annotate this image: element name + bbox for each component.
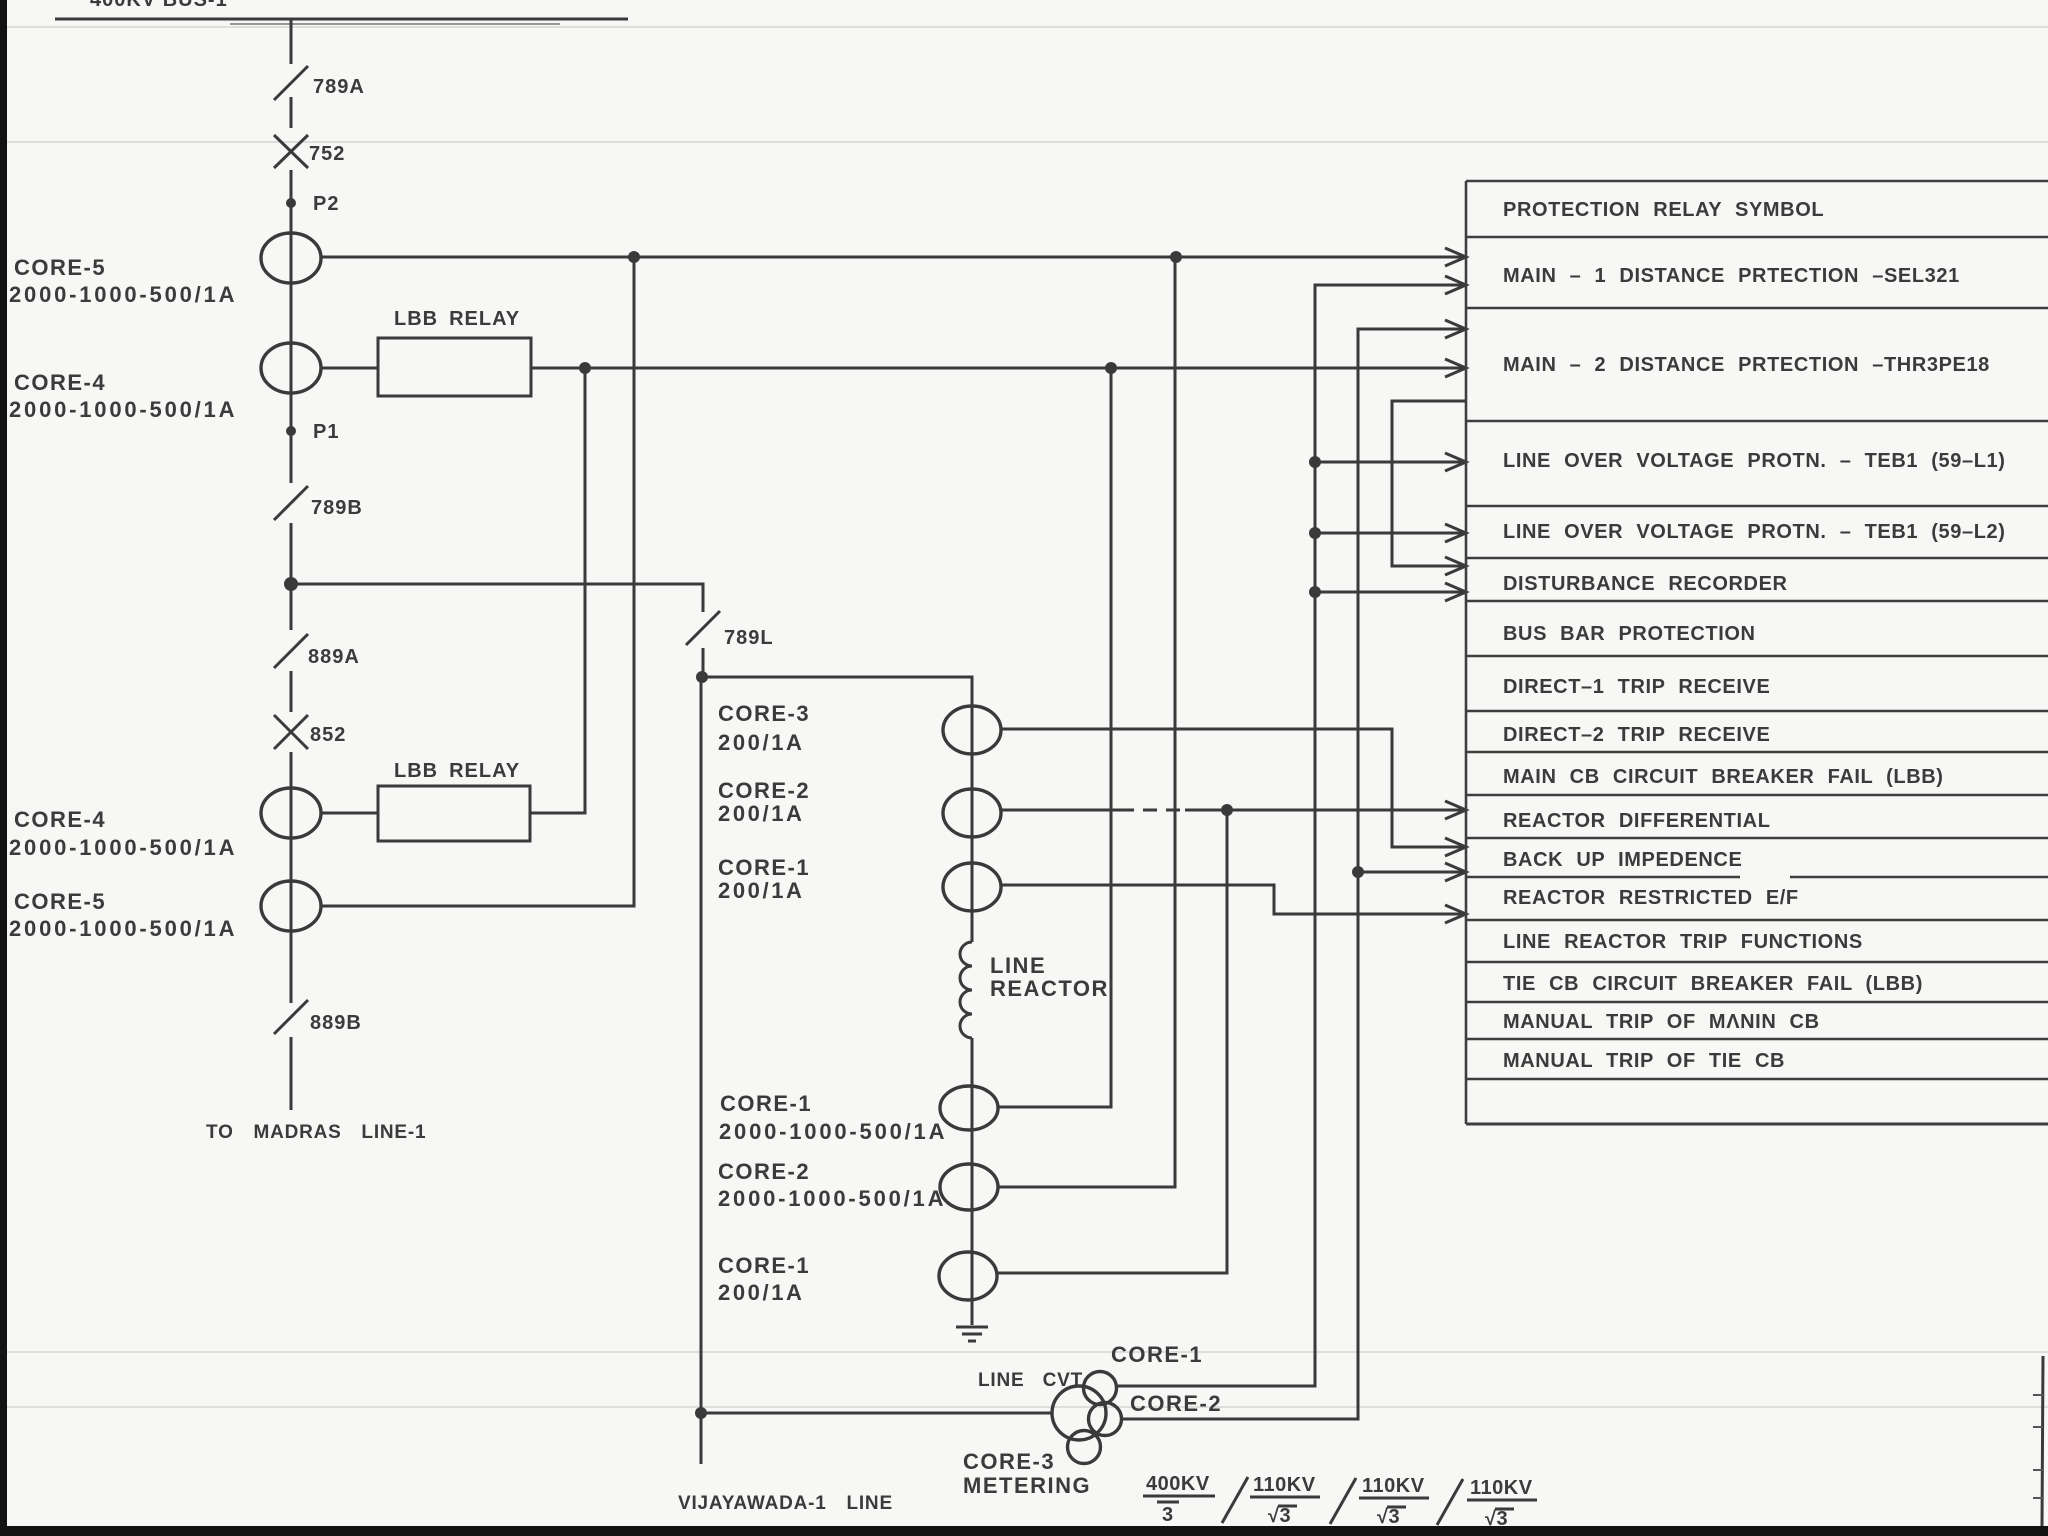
wire: 789A to breaker 752 — [290, 97, 293, 128]
ratio slash 1 — [1222, 1477, 1248, 1523]
svg-text:CORE-3: CORE-3 — [963, 1449, 1055, 1474]
value label 400KV/3 ratio — [1143, 1473, 1215, 1526]
wire: CORE-4 CT to LBB relay 1 — [321, 367, 378, 370]
isolator 889B — [274, 1000, 362, 1034]
label CVT CORE-1 — [1111, 1342, 1203, 1367]
wire: node to line reactor branch — [702, 677, 972, 942]
table row BACK UP IMPEDENCE — [1503, 849, 1742, 871]
svg-text:REACTOR: REACTOR — [990, 976, 1109, 1001]
svg-text:REACTOR DIFFERENTIAL: REACTOR DIFFERENTIAL — [1503, 810, 1771, 832]
value label CORE-5 2000-1000-500/1A — [9, 255, 237, 307]
svg-text:752: 752 — [309, 143, 345, 165]
wire: CORE-5 upper CT to MAIN-1 row — [321, 256, 1466, 259]
svg-text:LINE CVT: LINE CVT — [978, 1370, 1083, 1391]
svg-text:CORE-3: CORE-3 — [718, 701, 810, 726]
wire: CVT CORE-2 output to relay chain B — [1122, 329, 1466, 1419]
table row MAIN-2 DISTANCE PRTECTION — [1503, 354, 1990, 376]
table row MAIN-1 DISTANCE PRTECTION — [1503, 265, 1960, 287]
wire: CORE-1 CT to REACTOR RESTRICTED E/F row — [1001, 885, 1466, 914]
junction on CORE-5 wire at x1176 — [1170, 251, 1182, 263]
node P1 — [286, 421, 339, 443]
svg-text:VIJAYAWADA-1 LINE: VIJAYAWADA-1 LINE — [678, 1493, 893, 1514]
svg-text:2000-1000-500/1A: 2000-1000-500/1A — [9, 916, 237, 941]
svg-text:REACTOR RESTRICTED E/F: REACTOR RESTRICTED E/F — [1503, 887, 1799, 909]
arrow into MAIN-1 (from CVT core-1) — [1445, 276, 1466, 294]
svg-text:789L: 789L — [724, 627, 774, 649]
svg-text:LBB RELAY: LBB RELAY — [394, 308, 520, 330]
svg-text:TO MADRAS LINE-1: TO MADRAS LINE-1 — [206, 1122, 426, 1143]
sheet border left black bar — [0, 0, 7, 1536]
LINE CVT core-2 winding circle — [1089, 1403, 1122, 1436]
junction chain A at disturbance recorder — [1309, 586, 1321, 598]
svg-text:3: 3 — [1162, 1504, 1174, 1526]
CT CORE-5 upper — [261, 233, 321, 283]
net label VIJAYAWADA-1 LINE — [678, 1493, 893, 1514]
value label CORE-4 2000-1000-500/1A — [9, 370, 237, 422]
protection relay table frame — [1466, 181, 2048, 1124]
table row MAIN CB CIRCUIT BREAKER FAIL — [1503, 766, 1944, 788]
svg-text:2000-1000-500/1A: 2000-1000-500/1A — [9, 835, 237, 860]
wire: chain A to LINE OVER VOLTAGE L1 — [1315, 461, 1466, 464]
isolator 789A — [274, 66, 365, 100]
CT CORE-2 reactor branch — [943, 789, 1001, 837]
svg-text:CORE-4: CORE-4 — [14, 807, 106, 832]
svg-text:CORE-1: CORE-1 — [718, 855, 810, 880]
label LINE CVT — [978, 1370, 1083, 1391]
svg-text:200/1A: 200/1A — [718, 801, 805, 826]
svg-text:LINE REACTOR TRIP FUNCTIONS: LINE REACTOR TRIP FUNCTIONS — [1503, 931, 1863, 953]
ratio slash 2 — [1330, 1478, 1356, 1524]
arrow into BACK UP IMPEDENCE (lower) — [1445, 863, 1466, 881]
wire: CORE-5 lower CT up to MAIN-1 wire — [321, 257, 634, 906]
svg-text:DIRECT–1 TRIP RECEIVE: DIRECT–1 TRIP RECEIVE — [1503, 676, 1770, 698]
bus 400KV BUS-1 label (clipped at top) — [90, 0, 228, 11]
wire: CVT CORE-1 output to relay chain A — [1116, 285, 1466, 1386]
CT CORE-5 lower — [261, 881, 321, 931]
table row REACTOR DIFFERENTIAL — [1503, 810, 1771, 832]
svg-text:√3: √3 — [1485, 1508, 1508, 1530]
node P2 — [286, 193, 339, 215]
CT CORE-1 200/1A bottom reactor branch — [939, 1252, 997, 1300]
arrow into LINE OVER VOLTAGE PROTN (59-L2) — [1445, 524, 1466, 542]
svg-text:√3: √3 — [1377, 1506, 1400, 1528]
value label CORE-5 2000-1000-500/1A lower — [9, 889, 237, 941]
table row MANUAL TRIP OF MANIN CB — [1503, 1011, 1820, 1033]
svg-text:TIE CB CIRCUIT BREAKER FAIL (L: TIE CB CIRCUIT BREAKER FAIL (LBB) — [1503, 973, 1923, 995]
svg-text:CORE-5: CORE-5 — [14, 255, 106, 280]
arrow into MAIN-1 distance protection — [1445, 248, 1466, 266]
wire: reactor to ground — [971, 1038, 974, 1325]
svg-text:CORE-2: CORE-2 — [718, 778, 810, 803]
junction node below 789L — [696, 671, 708, 683]
svg-text:MANUAL TRIP OF MΛNIN CB: MANUAL TRIP OF MΛNIN CB — [1503, 1011, 1820, 1033]
svg-text:789A: 789A — [313, 76, 365, 98]
bus bar 400KV — [55, 18, 628, 21]
junction chain B at back up impedence — [1352, 866, 1364, 878]
table row DIRECT-1 TRIP RECEIVE — [1503, 676, 1770, 698]
svg-text:2000-1000-500/1A: 2000-1000-500/1A — [9, 397, 237, 422]
wire: 752 through CTs to isolator 789B — [290, 170, 293, 483]
wire: 852 through lower CTs to isolator 889B — [290, 752, 293, 1003]
svg-text:MAIN – 1 DISTANCE PRTECTION –S: MAIN – 1 DISTANCE PRTECTION –SEL321 — [1503, 265, 1960, 287]
value label CORE-1 200/1A — [718, 855, 810, 903]
svg-text:P2: P2 — [313, 193, 339, 215]
LBB relay 2 — [378, 760, 530, 841]
wire: CORE-3 CT to BACK UP IMPEDENCE row — [1001, 729, 1466, 847]
arrow into DISTURBANCE RECORDER (lower) — [1445, 583, 1466, 601]
LBB relay 1 — [378, 308, 531, 396]
value label CORE-1 2000-1000-500/1A — [719, 1091, 947, 1144]
svg-text:200/1A: 200/1A — [718, 1280, 805, 1305]
svg-text:789B: 789B — [311, 497, 363, 519]
svg-text:CORE-5: CORE-5 — [14, 889, 106, 914]
svg-text:CORE-1: CORE-1 — [720, 1091, 812, 1116]
isolator 789L — [686, 611, 774, 649]
svg-text:200/1A: 200/1A — [718, 878, 805, 903]
arrow into LINE OVER VOLTAGE PROTN (59-L1) — [1445, 453, 1466, 471]
svg-text:MAIN – 2 DISTANCE PRTECTION –T: MAIN – 2 DISTANCE PRTECTION –THR3PE18 — [1503, 354, 1990, 376]
table row LINE OVER VOLTAGE PROTN 59-L2 — [1503, 521, 2006, 543]
svg-text:CORE-1: CORE-1 — [718, 1253, 810, 1278]
wire: LBB relay 1 output to MAIN-2 row — [531, 367, 1466, 370]
isolator 789B — [274, 486, 363, 520]
value label 110KV/sqrt3 ratio 4 — [1467, 1477, 1537, 1530]
svg-text:BUS BAR PROTECTION: BUS BAR PROTECTION — [1503, 623, 1756, 645]
label LINE REACTOR — [990, 953, 1109, 1001]
svg-text:METERING: METERING — [963, 1473, 1091, 1498]
wire: CORE-1 lower CT up to MAIN-2 wire — [998, 368, 1111, 1107]
value label CORE-1 200/1A bottom — [718, 1253, 810, 1305]
ground — [956, 1327, 988, 1341]
svg-text:400KV: 400KV — [1146, 1473, 1210, 1495]
table row DIRECT-2 TRIP RECEIVE — [1503, 724, 1770, 746]
wire: CORE-1 bottom CT up to reactor differential wire — [997, 810, 1227, 1273]
wire: chain A to DISTURBANCE RECORDER — [1315, 591, 1466, 594]
svg-text:P1: P1 — [313, 421, 339, 443]
table row PROTECTION RELAY SYMBOL — [1503, 199, 1824, 221]
svg-text:CORE-1: CORE-1 — [1111, 1342, 1203, 1367]
wire: 889A to breaker 852 — [290, 671, 293, 712]
wire: 789B to junction node — [290, 523, 293, 630]
arrow into REACTOR DIFFERENTIAL — [1445, 801, 1466, 819]
value label CORE-2 200/1A — [718, 778, 810, 826]
svg-text:889A: 889A — [308, 646, 360, 668]
table row BUS BAR PROTECTION — [1503, 623, 1756, 645]
CT CORE-1 reactor branch — [943, 863, 1001, 911]
junction node at line CVT tap — [695, 1407, 707, 1419]
wire: LBB relay 2 output up to MAIN-2 wire — [530, 368, 585, 813]
CT CORE-4 lower — [261, 788, 321, 838]
svg-text:2000-1000-500/1A: 2000-1000-500/1A — [719, 1119, 947, 1144]
svg-text:LINE: LINE — [990, 953, 1046, 978]
table row REACTOR RESTRICTED E/F — [1503, 887, 1799, 909]
line reactor coil — [960, 942, 972, 1038]
junction at x1111 on LBB-1 output — [1105, 362, 1117, 374]
svg-text:110KV: 110KV — [1362, 1475, 1425, 1497]
sheet border right edge line — [2042, 1356, 2043, 1526]
wire: node down to line CVT junction — [700, 677, 703, 1464]
junction chain A at line over voltage L2 — [1309, 527, 1321, 539]
svg-text:CORE-2: CORE-2 — [718, 1159, 810, 1184]
table row DISTURBANCE RECORDER — [1503, 573, 1788, 595]
svg-text:MANUAL TRIP OF TIE CB: MANUAL TRIP OF TIE CB — [1503, 1050, 1785, 1072]
isolator 889A — [274, 634, 360, 668]
svg-text:DIRECT–2 TRIP RECEIVE: DIRECT–2 TRIP RECEIVE — [1503, 724, 1770, 746]
table row MANUAL TRIP OF TIE CB — [1503, 1050, 1785, 1072]
svg-text:889B: 889B — [310, 1012, 362, 1034]
CT CORE-1 2000-1000-500/1A lower reactor branch — [940, 1086, 998, 1130]
svg-text:DISTURBANCE RECORDER: DISTURBANCE RECORDER — [1503, 573, 1788, 595]
wire: chain A to LINE OVER VOLTAGE L2 — [1315, 532, 1466, 535]
svg-text:PROTECTION RELAY SYMBOL: PROTECTION RELAY SYMBOL — [1503, 199, 1824, 221]
table row LINE REACTOR TRIP FUNCTIONS — [1503, 931, 1863, 953]
svg-text:110KV: 110KV — [1470, 1477, 1533, 1499]
svg-text:2000-1000-500/1A: 2000-1000-500/1A — [718, 1186, 946, 1211]
value label CORE-4 2000-1000-500/1A lower — [9, 807, 237, 860]
arrow into REACTOR RESTRICTED E/F — [1445, 905, 1466, 923]
svg-text:CORE-2: CORE-2 — [1130, 1391, 1222, 1416]
wire: 789L to reactor branch node — [702, 648, 705, 677]
svg-text:400KV BUS-1: 400KV BUS-1 — [90, 0, 228, 11]
svg-text:CORE-4: CORE-4 — [14, 370, 106, 395]
junction on CORE-5 wire at x634 — [628, 251, 640, 263]
LINE CVT core-1 winding circle — [1084, 1372, 1117, 1405]
svg-text:BACK UP IMPEDENCE: BACK UP IMPEDENCE — [1503, 849, 1742, 871]
value label CORE-3 200/1A — [718, 701, 810, 755]
table row TIE CB CIRCUIT BREAKER FAIL — [1503, 973, 1923, 995]
arrow into MAIN-2 (from CVT core-2) — [1445, 320, 1466, 338]
svg-text:200/1A: 200/1A — [718, 730, 805, 755]
junction chain A at line over voltage L1 — [1309, 456, 1321, 468]
CT CORE-4 upper — [261, 343, 321, 393]
wire: junction to 789L branch — [291, 584, 703, 612]
wire: CORE-2 CT to REACTOR DIFFERENTIAL row — [1001, 809, 1120, 812]
junction node on main feeder — [284, 577, 298, 591]
arrow into MAIN-2 distance protection — [1445, 359, 1466, 377]
wire: disturbance recorder U-link — [1392, 401, 1466, 566]
svg-text:√3: √3 — [1268, 1505, 1291, 1527]
wire: bus to isolator 789A — [290, 19, 293, 64]
wire: junction to LINE CVT — [701, 1412, 1052, 1415]
svg-text:LBB RELAY: LBB RELAY — [394, 760, 520, 782]
LINE CVT main capacitor circle — [1052, 1386, 1106, 1440]
breaker 752 — [274, 135, 345, 168]
value label 110KV/sqrt3 ratio 3 — [1359, 1475, 1429, 1528]
arrow into BACK UP IMPEDENCE (upper) — [1445, 838, 1466, 856]
junction at x585 on LBB-1 output — [579, 362, 591, 374]
svg-text:LINE OVER VOLTAGE PROTN. – TEB: LINE OVER VOLTAGE PROTN. – TEB1 (59–L1) — [1503, 450, 2006, 472]
table row LINE OVER VOLTAGE PROTN 59-L1 — [1503, 450, 2006, 472]
sheet border bottom black bar — [0, 1526, 2048, 1536]
svg-text:MAIN CB CIRCUIT BREAKER FAIL (: MAIN CB CIRCUIT BREAKER FAIL (LBB) — [1503, 766, 1944, 788]
svg-text:852: 852 — [310, 724, 346, 746]
label CVT CORE-3 METERING — [963, 1449, 1091, 1498]
net label TO MADRAS LINE-1 — [206, 1122, 426, 1143]
CT CORE-3 reactor branch — [943, 706, 1001, 754]
svg-text:LINE OVER VOLTAGE PROTN. – TEB: LINE OVER VOLTAGE PROTN. – TEB1 (59–L2) — [1503, 521, 2006, 543]
wire: chain B to BACK UP IMPEDENCE — [1358, 871, 1466, 874]
label CVT CORE-2 — [1130, 1391, 1222, 1416]
breaker 852 — [274, 715, 346, 749]
junction on CORE-2 wire at x1227 — [1221, 804, 1233, 816]
arrow into DISTURBANCE RECORDER (upper) — [1445, 557, 1466, 575]
ratio slash 3 — [1437, 1479, 1463, 1525]
svg-text:2000-1000-500/1A: 2000-1000-500/1A — [9, 282, 237, 307]
svg-text:110KV: 110KV — [1253, 1474, 1316, 1496]
value label 110KV/sqrt3 ratio 2 — [1250, 1474, 1320, 1527]
CT CORE-2 2000-1000-500/1A lower reactor branch — [940, 1164, 998, 1210]
LINE CVT core-3 winding circle — [1068, 1431, 1101, 1464]
wire: CORE-2 lower CT up to MAIN-1 wire — [998, 257, 1175, 1187]
wire: CORE-4 lower CT to LBB relay 2 — [321, 812, 378, 815]
wire: 889B to Madras line — [290, 1037, 293, 1110]
value label CORE-2 2000-1000-500/1A — [718, 1159, 946, 1211]
